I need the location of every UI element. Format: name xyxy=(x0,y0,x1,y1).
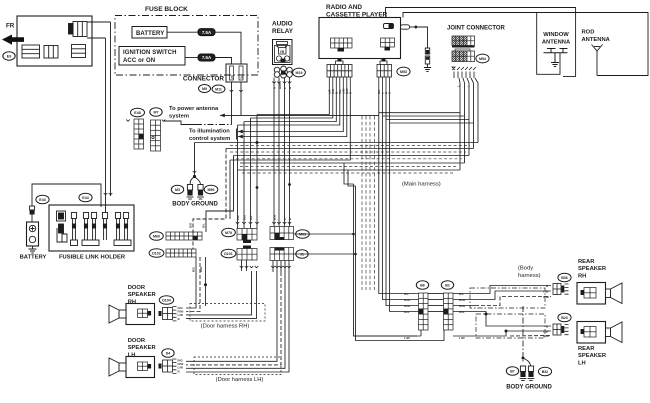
window antenna ground xyxy=(551,63,559,67)
wire q4 to JC xyxy=(390,95,474,123)
svg-text:ROD: ROD xyxy=(582,30,595,36)
svg-text:B/W: B/W xyxy=(273,214,277,220)
door speaker RH xyxy=(126,304,155,325)
svg-text:DOOR: DOOR xyxy=(128,338,146,344)
wire down to M79 c xyxy=(250,118,252,229)
wire radio to M79 xyxy=(238,95,340,125)
svg-text:M96: M96 xyxy=(208,188,215,192)
svg-text:system: system xyxy=(169,114,189,120)
svg-text:ACC or ON: ACC or ON xyxy=(123,58,155,64)
svg-text:W/B: W/B xyxy=(543,295,550,299)
svg-text:(Main harness): (Main harness) xyxy=(402,182,441,188)
connector label B23 xyxy=(558,313,571,322)
svg-text:B/W: B/W xyxy=(404,298,410,302)
corridor shield dash 3 xyxy=(236,158,462,160)
svg-text:M19: M19 xyxy=(296,71,303,75)
connector label D4 xyxy=(162,349,174,358)
shield dash line xyxy=(365,116,367,290)
JC vertical 2 xyxy=(463,78,465,163)
fuse 7.5A (ignition) xyxy=(198,54,215,61)
rear LH wire 3 xyxy=(510,335,551,338)
svg-text:B32: B32 xyxy=(542,370,549,374)
svg-text:LH: LH xyxy=(128,352,136,358)
drop to L/W 1 xyxy=(344,163,354,184)
L/W vertical to B6 xyxy=(354,184,418,336)
svg-text:REAR: REAR xyxy=(578,259,595,265)
relay wires labels near M63 xyxy=(272,222,276,224)
svg-text:W/L: W/L xyxy=(404,310,410,314)
fuse box striped connector A xyxy=(22,45,40,58)
joint connector pin wire xyxy=(465,72,467,79)
fusible links xyxy=(57,211,132,246)
illumination wire 1 xyxy=(238,95,343,132)
connector label D101 xyxy=(221,249,236,258)
wire q1 to JC xyxy=(379,95,460,113)
joint connector pin wire xyxy=(453,72,455,79)
svg-text:BATTERY: BATTERY xyxy=(136,31,164,37)
svg-text:B36: B36 xyxy=(561,276,568,280)
svg-text:RADIO AND: RADIO AND xyxy=(326,4,362,11)
svg-text:M9: M9 xyxy=(202,87,207,91)
svg-text:D101: D101 xyxy=(224,252,233,256)
antenna plug outside radio xyxy=(401,25,410,29)
connector label M54 xyxy=(476,54,489,63)
drain wire to body ground xyxy=(522,306,524,362)
connector label E48 xyxy=(131,108,145,117)
connector grid M60 xyxy=(166,232,202,240)
fuse box striped connector B xyxy=(44,46,58,59)
shield dash line xyxy=(361,116,363,290)
svg-text:D4: D4 xyxy=(166,351,171,355)
door harness RH shield box xyxy=(190,304,265,322)
corridor line 4 xyxy=(240,162,465,164)
joint connector block 1 xyxy=(452,36,475,46)
JC vertical 1 xyxy=(459,78,460,170)
L/W wire from J1 xyxy=(294,253,356,255)
connector label M96 xyxy=(204,185,218,194)
radio antenna jack xyxy=(384,24,394,29)
corridor line 2 xyxy=(226,148,474,150)
svg-text:m: m xyxy=(280,49,284,54)
corridor shield dash 5 xyxy=(242,172,455,174)
svg-text:BATTERY: BATTERY xyxy=(20,255,47,261)
connector box (fuse block output) xyxy=(226,64,247,82)
shield dash line xyxy=(374,116,376,290)
connector label E43 xyxy=(36,195,49,204)
connector label M79 xyxy=(222,228,236,237)
door speaker LH xyxy=(126,357,155,378)
wire fuse to connector pin L xyxy=(215,58,232,65)
connector label M19 xyxy=(293,68,306,77)
connector strip B6 xyxy=(419,293,429,330)
radio connector S pin wires and colour labels xyxy=(378,77,380,95)
shield dash line xyxy=(369,116,371,290)
connector label M53 xyxy=(397,67,410,76)
svg-text:SPEAKER: SPEAKER xyxy=(578,266,607,272)
wire between B6 and B2 xyxy=(428,305,444,307)
JC vertical 5 xyxy=(475,78,478,143)
joint connector pin wire xyxy=(461,72,463,79)
svg-text:B7: B7 xyxy=(510,369,515,373)
svg-text:JOINT CONNECTOR: JOINT CONNECTOR xyxy=(447,26,506,32)
svg-text:BODY GROUND: BODY GROUND xyxy=(506,385,552,391)
radio connector M pin wires and colour labels xyxy=(328,77,330,95)
rear LH wire 1 xyxy=(475,312,551,327)
svg-text:FR: FR xyxy=(6,23,15,30)
svg-text:LH: LH xyxy=(578,360,586,366)
svg-text:B23: B23 xyxy=(561,316,568,320)
illumination arrow 2 xyxy=(238,135,243,139)
svg-text:M3: M3 xyxy=(175,188,180,192)
antenna shield ground xyxy=(424,68,431,72)
wire battery to fuse xyxy=(167,31,198,33)
drop to L/W 2 xyxy=(348,170,356,186)
svg-text:E44: E44 xyxy=(82,196,88,200)
wire to D102 b xyxy=(229,160,231,219)
fusible link holder box xyxy=(49,205,134,251)
svg-text:L: L xyxy=(283,87,287,89)
svg-text:L: L xyxy=(283,218,287,220)
svg-text:B/W: B/W xyxy=(278,83,282,89)
wire down to M79 d xyxy=(256,115,258,229)
radio internal connector B xyxy=(381,38,395,47)
radio internal connector A xyxy=(331,38,353,48)
svg-text:M11: M11 xyxy=(215,87,222,91)
wire ignition to fuse xyxy=(185,57,198,59)
L/W vertical to B2 xyxy=(356,186,445,341)
RH door wire 1 xyxy=(186,257,196,308)
corridor line 5 xyxy=(238,169,461,171)
svg-text:RH: RH xyxy=(128,299,136,305)
wire from fuse box to fusible link (upper) xyxy=(87,21,111,23)
body ground terminal 2 xyxy=(197,185,204,200)
fuse 7.5A (battery) xyxy=(198,29,215,36)
strip arrow mark 2 xyxy=(162,120,166,122)
svg-text:B6: B6 xyxy=(420,283,425,287)
svg-text:AUDIO: AUDIO xyxy=(272,21,293,28)
connector label M63 xyxy=(296,230,310,239)
connector label E44 xyxy=(79,193,92,202)
fuse box striped connector C xyxy=(72,45,86,58)
door connector RH pair xyxy=(159,311,162,316)
battery terminal xyxy=(30,206,35,210)
antenna feeder connector pair xyxy=(425,48,429,54)
radio harness connector S (right) xyxy=(380,61,387,65)
svg-text:ANTENNA: ANTENNA xyxy=(542,40,571,46)
illumination arrow 1 xyxy=(238,130,243,134)
wire to B6 row2 xyxy=(382,116,418,300)
wire acc feed to radio xyxy=(220,114,379,116)
wire down right 1 xyxy=(110,22,112,196)
door harness LH shield box xyxy=(194,357,281,375)
svg-text:(Door harness RH): (Door harness RH) xyxy=(201,324,250,330)
wire to B6 row4 xyxy=(390,123,419,312)
wire to strip M7 xyxy=(164,121,197,125)
svg-text:M53: M53 xyxy=(400,70,407,74)
L/W wire from M63 xyxy=(294,233,354,235)
svg-text:E43: E43 xyxy=(39,198,45,202)
svg-text:SPEAKER: SPEAKER xyxy=(128,292,157,298)
joint connector pin wire xyxy=(473,72,475,79)
wire to B6 row1 xyxy=(379,113,419,294)
window antenna element xyxy=(544,49,568,63)
wire radio to M79 xyxy=(251,95,333,118)
svg-text:E9: E9 xyxy=(7,54,11,58)
svg-text:R/L: R/L xyxy=(249,215,253,220)
LH door wire 3 xyxy=(186,272,285,368)
svg-text:FUSIBLE LINK HOLDER: FUSIBLE LINK HOLDER xyxy=(59,255,126,261)
svg-text:7.5A: 7.5A xyxy=(202,30,212,35)
rear speaker RH connector pair xyxy=(553,284,561,295)
fuse box location outline xyxy=(17,16,92,66)
inline connector mark xyxy=(109,193,113,195)
LH door wire 2 xyxy=(186,272,281,365)
wire right of B2 xyxy=(453,299,475,301)
relay connector below xyxy=(274,66,292,78)
wire q3 to JC xyxy=(386,95,469,120)
RH door wire 3 xyxy=(186,271,252,315)
svg-text:L/W: L/W xyxy=(404,336,410,340)
door connector LH pair xyxy=(159,364,162,369)
arrow to power antenna xyxy=(220,114,225,118)
connector label M7 xyxy=(150,108,162,117)
audio relay box xyxy=(273,40,293,65)
svg-text:To illumination: To illumination xyxy=(189,129,230,135)
battery body xyxy=(27,222,39,246)
body ground terminal 1 xyxy=(187,185,194,200)
svg-text:SPEAKER: SPEAKER xyxy=(578,353,607,359)
svg-text:(Body: (Body xyxy=(518,266,533,272)
joint connector block 2 xyxy=(455,49,470,51)
rear RH wire 3 xyxy=(475,297,551,306)
wire right of B2 xyxy=(453,305,475,307)
harness strip 2 xyxy=(151,120,161,151)
shield box LH xyxy=(476,314,545,338)
connector grid D102 xyxy=(166,249,196,257)
wire down to M79 a xyxy=(237,125,239,229)
wire between B6 and B2 xyxy=(428,293,444,295)
connector strip B2 xyxy=(444,293,454,330)
svg-text:B2: B2 xyxy=(445,283,450,287)
connector label D104 xyxy=(159,296,173,305)
window antenna wiring loop xyxy=(537,13,560,75)
svg-text:BODY GROUND: BODY GROUND xyxy=(172,202,218,208)
connector label B2 xyxy=(441,281,453,290)
svg-text:WINDOW: WINDOW xyxy=(543,32,569,38)
connector label M3 xyxy=(171,185,183,194)
svg-text:M54: M54 xyxy=(479,57,486,61)
harness strip 1 xyxy=(134,119,144,149)
corridor shield dash 1 xyxy=(230,145,470,147)
joint wire merge symbol xyxy=(452,67,476,70)
svg-text:W/B: W/B xyxy=(543,334,550,338)
svg-text:control system: control system xyxy=(189,136,230,142)
relay wires down xyxy=(273,78,275,227)
svg-text:B/R: B/R xyxy=(189,222,193,228)
wire from fuse box (lower) xyxy=(87,37,106,39)
ground split curves xyxy=(190,177,201,185)
direction arrow (front) xyxy=(2,35,24,45)
connector label D102 xyxy=(149,249,164,258)
relay coil xyxy=(279,48,287,55)
svg-text:L/W: L/W xyxy=(543,290,549,294)
svg-text:B/L: B/L xyxy=(202,223,206,228)
antenna wire B xyxy=(403,13,648,76)
JC vertical 4 xyxy=(471,78,474,149)
connector grid M79 xyxy=(237,229,257,241)
harness boundary dash line xyxy=(196,124,232,126)
illumination bracket xyxy=(236,129,238,140)
body ground terminal right 2 xyxy=(528,366,535,381)
svg-text:RH: RH xyxy=(578,273,586,279)
connector label B6 xyxy=(416,281,428,290)
battery ground xyxy=(29,249,37,253)
svg-text:R/W: R/W xyxy=(199,266,203,272)
svg-text:D102: D102 xyxy=(152,251,161,255)
rear speaker RH xyxy=(577,283,606,305)
shield box RH xyxy=(470,288,545,308)
rear LH wire 2 xyxy=(453,331,551,336)
radio harness connector M (left) xyxy=(336,61,344,65)
wire radio to M79 xyxy=(257,95,329,115)
connector label M60 xyxy=(150,232,164,241)
wire to B6 row3 xyxy=(386,120,419,306)
LH door wire 1 xyxy=(186,272,277,361)
wire to D102 (shielded) xyxy=(193,149,226,250)
svg-text:R/G: R/G xyxy=(242,215,246,220)
wire q2 to JC xyxy=(382,95,464,116)
connector label B32 xyxy=(538,367,551,376)
svg-text:E48: E48 xyxy=(134,111,140,115)
connector label M9 xyxy=(199,85,211,93)
connector label B7 xyxy=(506,367,518,376)
battery positive lead xyxy=(32,184,101,207)
svg-text:IGNITION SWITCH: IGNITION SWITCH xyxy=(123,50,177,56)
relay contacts xyxy=(276,56,281,61)
svg-text:7.5A: 7.5A xyxy=(202,55,212,60)
RH door wire 4 xyxy=(186,271,257,319)
connector label E9 xyxy=(3,52,15,60)
body ground terminal right 1 xyxy=(520,366,527,381)
wire radio to M79 xyxy=(244,95,336,122)
svg-text:CONNECTOR: CONNECTOR xyxy=(183,76,224,83)
svg-text:W/G: W/G xyxy=(404,304,411,308)
connector label J1 xyxy=(296,250,308,259)
svg-text:DOOR: DOOR xyxy=(128,285,146,291)
svg-text:harness): harness) xyxy=(518,273,541,279)
fuse box relay component xyxy=(73,22,87,37)
wire fuse to connector pin R xyxy=(215,32,241,64)
RH door wire 2 xyxy=(186,257,200,312)
connector grid J1 xyxy=(270,248,294,261)
svg-text:R/G: R/G xyxy=(192,267,196,272)
rod antenna symbol xyxy=(592,45,603,76)
connector label M11 xyxy=(212,85,225,93)
wire connector pin R down xyxy=(240,82,242,115)
svg-text:ANTENNA: ANTENNA xyxy=(582,37,611,43)
svg-text:L: L xyxy=(466,85,470,87)
antenna wire A xyxy=(386,8,576,77)
corridor line 3 xyxy=(234,155,470,157)
wire between B6 and B2 xyxy=(428,311,444,313)
ground splice line xyxy=(195,142,479,144)
strip arrow mark 1 xyxy=(126,120,130,122)
wire down right 2 into fusible link holder xyxy=(105,38,107,213)
svg-text:REAR: REAR xyxy=(578,346,595,352)
svg-text:B: B xyxy=(288,218,292,220)
svg-text:L/W: L/W xyxy=(543,330,549,334)
illumination wire 2 xyxy=(238,95,347,137)
rear speaker LH xyxy=(577,322,606,344)
svg-text:(Door harness LH): (Door harness LH) xyxy=(216,377,264,383)
antenna feeder wire xyxy=(417,27,427,48)
joint connector pin wire xyxy=(469,72,471,79)
radio box xyxy=(319,18,401,59)
JC vertical 3 xyxy=(467,78,469,156)
svg-text:To power antenna: To power antenna xyxy=(169,106,219,112)
svg-text:RELAY: RELAY xyxy=(272,28,294,35)
rear speaker LH connector pair xyxy=(553,324,561,335)
ignition switch box xyxy=(119,47,185,66)
wire to M60 xyxy=(206,156,234,233)
connector grid M63 xyxy=(270,227,294,240)
joint connector pin wire xyxy=(457,72,459,79)
battery feed box xyxy=(132,27,167,39)
svg-text:M60: M60 xyxy=(153,234,160,238)
wire between B6 and B2 xyxy=(428,299,444,301)
ground wire down xyxy=(194,143,196,177)
rear RH wire 2 xyxy=(475,291,551,300)
svg-text:B/L: B/L xyxy=(404,292,409,296)
svg-text:M7: M7 xyxy=(154,110,159,114)
svg-text:3L: 3L xyxy=(239,75,243,79)
wire right of B2 xyxy=(453,311,475,313)
wire connector pin L down xyxy=(231,82,233,125)
connector label B36 xyxy=(558,273,571,282)
corridor shield dash 4 xyxy=(240,166,458,168)
svg-text:L/R: L/R xyxy=(236,215,240,220)
svg-text:M79: M79 xyxy=(225,231,232,235)
svg-text:SPEAKER: SPEAKER xyxy=(128,345,157,351)
connector grid D101 xyxy=(237,249,257,261)
svg-text:FUSE BLOCK: FUSE BLOCK xyxy=(145,6,188,13)
LH door wire 4 xyxy=(186,272,289,372)
wire right of B2 xyxy=(453,293,475,295)
corridor shield dash 2 xyxy=(230,151,466,153)
wire down to M79 b xyxy=(243,122,245,229)
fuse block dash-dot border xyxy=(115,16,258,76)
svg-text:D104: D104 xyxy=(162,298,171,302)
wire radio p7 xyxy=(230,95,350,160)
rear RH wire 1 xyxy=(475,286,551,294)
